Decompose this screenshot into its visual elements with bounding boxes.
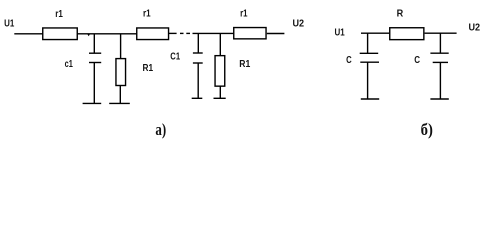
svg-text:c1: c1 bbox=[65, 59, 74, 70]
svg-text:r1: r1 bbox=[55, 9, 63, 20]
svg-text:а): а) bbox=[155, 120, 166, 139]
svg-text:r1: r1 bbox=[240, 8, 248, 19]
svg-text:C: C bbox=[346, 55, 352, 66]
capacitor c1 bbox=[89, 34, 101, 104]
svg-text:r1: r1 bbox=[143, 8, 151, 19]
label R1 (second) bbox=[239, 59, 250, 70]
wire output to U2 bbox=[267, 33, 285, 35]
svg-text:U2: U2 bbox=[293, 19, 305, 30]
svg-text:R1: R1 bbox=[143, 63, 154, 74]
ground tick under R1 second bbox=[214, 97, 226, 99]
svg-text:б): б) bbox=[421, 120, 433, 139]
junction nib on wire bbox=[87, 34, 90, 36]
node U1 (circuit a input) bbox=[4, 18, 15, 29]
node U1 (circuit b input) bbox=[335, 28, 346, 39]
ground tick under right C bbox=[430, 98, 448, 100]
svg-text:U1: U1 bbox=[4, 18, 15, 29]
resistor r1 (third series box) bbox=[234, 28, 266, 39]
svg-text:U2: U2 bbox=[469, 23, 481, 34]
dashed continuation wire bbox=[180, 32, 190, 34]
wire top section 2 bbox=[193, 32, 234, 34]
caption a) bbox=[155, 120, 166, 139]
capacitor C1 bbox=[193, 33, 203, 98]
label r1 (third) bbox=[240, 8, 248, 19]
resistor R1 (second shunt) bbox=[215, 33, 225, 98]
capacitor C (right, circuit b) bbox=[430, 33, 448, 99]
ground tick under C1 bbox=[192, 97, 203, 99]
node U2 (circuit b output) bbox=[469, 23, 481, 34]
wire input U1 to r1 bbox=[14, 33, 42, 35]
wire output circuit b bbox=[425, 32, 457, 34]
caption b) bbox=[421, 120, 433, 139]
label r1 (first) bbox=[55, 9, 63, 20]
capacitor C (left, circuit b) bbox=[360, 33, 379, 99]
resistor R1 (first shunt) bbox=[116, 34, 126, 104]
label R1 (first) bbox=[143, 63, 154, 74]
node U2 (circuit a output) bbox=[293, 19, 305, 30]
svg-text:U1: U1 bbox=[335, 28, 346, 39]
resistor r1 (second series box) bbox=[137, 28, 169, 40]
ground tick under c1 bbox=[83, 102, 102, 104]
label C1 bbox=[170, 52, 180, 63]
label R bbox=[397, 9, 404, 20]
ground tick under left C bbox=[361, 98, 379, 100]
wire input circuit b bbox=[361, 32, 389, 34]
wire top section 1 bbox=[78, 33, 137, 35]
label C (right) bbox=[414, 55, 420, 66]
resistor R (series box, circuit b) bbox=[390, 28, 424, 40]
svg-text:R1: R1 bbox=[239, 59, 250, 70]
label r1 (second) bbox=[143, 8, 151, 19]
ground tick under R1 first bbox=[109, 102, 130, 104]
wire stub after second r1 bbox=[169, 32, 177, 34]
label c1 bbox=[65, 59, 74, 70]
svg-text:C: C bbox=[414, 55, 420, 66]
svg-text:C1: C1 bbox=[170, 52, 180, 63]
svg-text:R: R bbox=[397, 9, 404, 20]
resistor r1 (first series box) bbox=[43, 28, 78, 40]
label C (left) bbox=[346, 55, 352, 66]
